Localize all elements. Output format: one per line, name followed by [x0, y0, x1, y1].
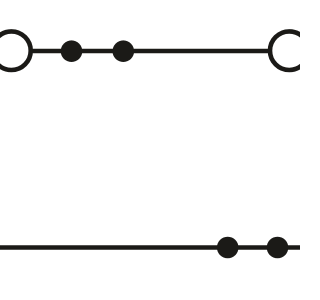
node C: junction dot on bottom rail: [217, 237, 239, 259]
node A: junction dot on top rail: [61, 40, 83, 62]
wire: top conductor rail: [11, 49, 289, 54]
node B: junction dot on top rail: [113, 40, 135, 62]
node D: junction dot on bottom rail: [267, 237, 289, 259]
terminal X1: open test-socket circle, left (clipped at edge): [0, 31, 31, 70]
wire: bottom conductor rail (full width): [0, 245, 300, 250]
terminal X2: open test-socket circle, right (clipped at edge): [270, 31, 309, 70]
